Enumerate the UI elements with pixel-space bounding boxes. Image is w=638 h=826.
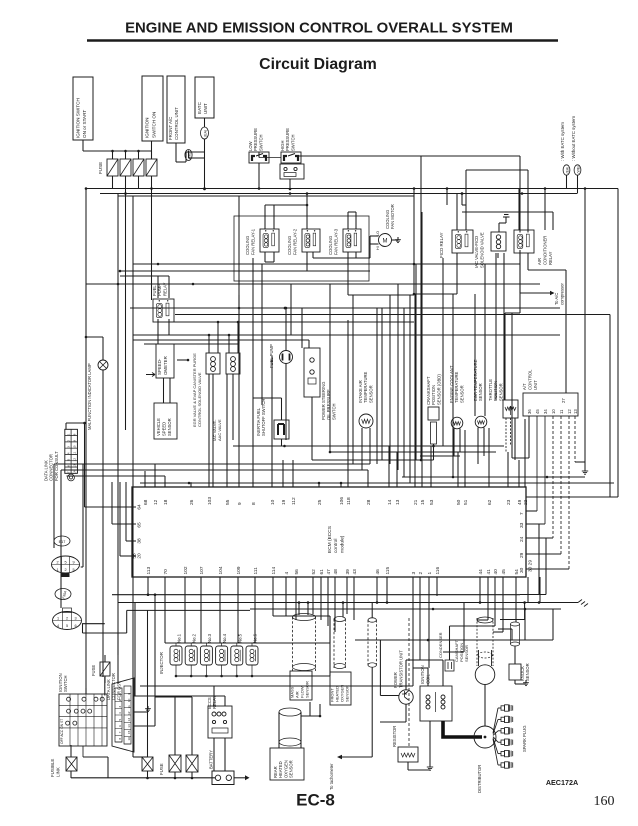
wires ECCS relay	[213, 738, 215, 771]
svg-text:OMETER: OMETER	[163, 356, 168, 375]
svg-text:FAN RELAY-2: FAN RELAY-2	[292, 228, 297, 255]
svg-text:58: 58	[132, 553, 138, 559]
svg-text:34: 34	[543, 409, 548, 414]
svg-text:55: 55	[225, 499, 231, 505]
svg-text:SPEED: SPEED	[162, 422, 167, 436]
svg-text:(EA): (EA)	[203, 130, 207, 137]
svg-text:ENGINE AND EMISSION CONTROL OV: ENGINE AND EMISSION CONTROL OVERALL SYST…	[125, 21, 513, 37]
svg-text:AAC VALVE: AAC VALVE	[217, 419, 222, 441]
fuse bottom 2	[186, 755, 198, 772]
svg-text:FICD RELAY: FICD RELAY	[439, 232, 444, 258]
wire bus above ECM 1	[233, 445, 504, 447]
svg-text:7: 7	[118, 731, 122, 733]
svg-text:SENSOR: SENSOR	[345, 685, 350, 702]
svg-text:15: 15	[420, 499, 426, 505]
svg-text:160: 160	[594, 794, 615, 809]
wire camshaft to ground	[498, 628, 512, 630]
svg-text:8: 8	[118, 738, 122, 740]
front A/C control unit box	[167, 76, 185, 143]
svg-text:3: 3	[66, 446, 70, 448]
connector F30A label	[55, 589, 71, 600]
svg-text:68: 68	[143, 499, 149, 505]
svg-text:MALFUNCTION INDICATOR LAMP: MALFUNCTION INDICATOR LAMP	[87, 363, 92, 430]
svg-text:62: 62	[487, 499, 493, 505]
connector WE on A/C line	[185, 150, 192, 161]
svg-text:SWITCH: SWITCH	[258, 134, 263, 151]
svg-text:FAN RELAY-1: FAN RELAY-1	[250, 228, 255, 255]
mass air flow sensor	[293, 614, 316, 621]
svg-text:24: 24	[519, 536, 525, 542]
svg-text:25: 25	[317, 499, 323, 505]
svg-text:26: 26	[189, 499, 195, 505]
svg-text:7: 7	[519, 512, 525, 515]
wires FICD AC relays	[456, 194, 458, 231]
ignition switch assembly	[59, 694, 107, 746]
svg-text:FRONT A/C: FRONT A/C	[168, 117, 173, 140]
svg-text:SENSOR: SENSOR	[498, 383, 503, 401]
svg-text:9: 9	[237, 502, 243, 505]
svg-text:103: 103	[207, 497, 213, 505]
fuse F3 top row	[133, 159, 144, 176]
svg-text:SENSOR: SENSOR	[305, 681, 310, 698]
data link connector for GST	[112, 678, 134, 752]
svg-text:13: 13	[573, 409, 578, 414]
svg-text:No.4: No.4	[222, 633, 227, 643]
wire bus above ECM 6	[140, 482, 614, 484]
svg-text:4: 4	[57, 624, 59, 628]
svg-text:4: 4	[284, 572, 290, 575]
svg-text:FOR GST: FOR GST	[116, 681, 121, 700]
svg-text:3: 3	[411, 572, 417, 575]
svg-text:CONDENSER: CONDENSER	[438, 632, 443, 658]
svg-text:23: 23	[506, 499, 512, 505]
svg-text:5: 5	[72, 568, 74, 572]
connector F30A pins	[53, 612, 82, 630]
svg-text:50: 50	[456, 499, 462, 505]
spark plugs	[498, 707, 501, 709]
wires solenoids	[212, 374, 214, 487]
svg-text:CONTROL: CONTROL	[527, 369, 532, 390]
svg-text:19: 19	[281, 499, 287, 505]
svg-text:SENSOR: SENSOR	[459, 385, 464, 403]
svg-text:CONTROL UNIT: CONTROL UNIT	[174, 107, 179, 140]
svg-text:EATC: EATC	[197, 101, 202, 114]
svg-text:14: 14	[387, 499, 393, 505]
wire injector ground bus	[176, 675, 330, 677]
svg-text:7: 7	[66, 471, 70, 473]
svg-text:6: 6	[74, 624, 76, 628]
svg-text:SENSOR: SENSOR	[289, 760, 294, 778]
ignition coil	[420, 686, 452, 721]
connector E17 label	[54, 536, 70, 546]
svg-text:IAC VALVE-FICD: IAC VALVE-FICD	[474, 236, 479, 268]
wires distributor region	[484, 684, 486, 726]
svg-text:4: 4	[66, 452, 70, 454]
svg-text:41: 41	[486, 569, 492, 575]
wire injector feed bus	[165, 642, 330, 644]
wires oxygen sensors	[301, 715, 320, 717]
wire main bus lower	[100, 193, 577, 195]
svg-text:FAN MOTOR: FAN MOTOR	[390, 204, 395, 229]
svg-text:2: 2	[64, 568, 66, 572]
svg-text:INJECTOR: INJECTOR	[159, 652, 164, 674]
svg-text:SENSOR: SENSOR	[368, 385, 373, 403]
svg-text:UNIT: UNIT	[203, 103, 208, 114]
svg-text:FUSE: FUSE	[98, 162, 103, 174]
wires to ECM top pins	[144, 471, 146, 487]
svg-text:36: 36	[527, 409, 532, 414]
svg-text:45: 45	[535, 409, 540, 414]
wires ECM right side steps	[526, 496, 618, 498]
svg-text:115: 115	[385, 567, 391, 575]
svg-text:FAN RELAY-3: FAN RELAY-3	[333, 228, 338, 255]
svg-text:COOLING: COOLING	[287, 236, 292, 255]
svg-text:: With EATC system: : With EATC system	[560, 122, 565, 161]
svg-text:ECM (ECCS: ECM (ECCS	[327, 526, 333, 553]
svg-text:48: 48	[333, 569, 339, 575]
svg-text:RELAY: RELAY	[212, 695, 217, 709]
svg-text:1: 1	[56, 568, 58, 572]
svg-text:SWITCH: SWITCH	[331, 403, 336, 420]
wires data link consult	[65, 423, 67, 429]
distributor	[474, 726, 496, 748]
wire fuse outputs to main bus	[112, 176, 114, 189]
ground above solenoid	[498, 223, 500, 232]
svg-text:EC-8: EC-8	[296, 791, 335, 810]
connector E17 pins	[52, 556, 80, 573]
wires cooling fan relays	[264, 205, 266, 229]
svg-text:13: 13	[127, 718, 131, 722]
svg-text:51: 51	[463, 499, 469, 505]
connector EA below EATC	[204, 118, 206, 127]
svg-text:SENSOR: SENSOR	[478, 383, 483, 401]
svg-text:38: 38	[137, 538, 143, 544]
svg-text:46: 46	[375, 569, 381, 575]
svg-text:40: 40	[493, 569, 499, 575]
svg-text:30: 30	[519, 567, 525, 573]
svg-text:14: 14	[127, 724, 131, 728]
svg-text:109: 109	[236, 566, 242, 574]
svg-text:IGNITION: IGNITION	[145, 118, 150, 138]
svg-text:CONDITIONER: CONDITIONER	[542, 236, 547, 265]
svg-text:BATTERY: BATTERY	[209, 750, 214, 769]
legend WE without EATC system	[574, 165, 581, 175]
svg-text:ON or START: ON or START	[82, 110, 87, 138]
svg-text:SENSOR: SENSOR	[167, 418, 172, 436]
svg-text:LO: LO	[376, 231, 380, 236]
vehicle speed sensor box	[154, 403, 177, 439]
wires fuel pump relay	[157, 276, 159, 298]
wire A/T pin 27 up	[565, 320, 567, 393]
svg-text:113: 113	[146, 567, 152, 575]
svg-text:43: 43	[352, 569, 358, 575]
svg-text:FUSE: FUSE	[91, 665, 96, 676]
wires power transistor	[405, 660, 407, 690]
ground right upper	[584, 468, 586, 471]
wire left verticals cluster	[117, 194, 119, 656]
svg-text:9: 9	[72, 560, 74, 564]
EATC unit box	[195, 77, 214, 118]
wires connectors to ECM	[82, 623, 105, 625]
svg-text:: Without EATC system: : Without EATC system	[571, 116, 576, 161]
svg-text:SOLENOID VALVE: SOLENOID VALVE	[480, 232, 485, 268]
svg-text:53: 53	[429, 499, 435, 505]
svg-text:106: 106	[339, 497, 345, 505]
svg-text:13: 13	[395, 499, 401, 505]
svg-text:114: 114	[271, 567, 277, 575]
svg-text:UNIT: UNIT	[533, 380, 538, 390]
wire bus branch y196	[118, 195, 414, 197]
wires A/T control unit drops	[528, 416, 530, 458]
svg-text:SENSOR: SENSOR	[525, 663, 530, 681]
svg-text:5: 5	[66, 459, 70, 461]
wire bus above ECM 4	[78, 463, 370, 465]
svg-text:112: 112	[291, 497, 297, 505]
svg-text:No.1: No.1	[177, 633, 182, 643]
tachometer feed cylinder	[368, 618, 376, 622]
svg-text:4: 4	[118, 712, 122, 714]
svg-text:SENSOR (OBD): SENSOR (OBD)	[436, 374, 441, 405]
svg-text:No.6: No.6	[253, 633, 258, 643]
svg-text:12: 12	[127, 711, 131, 715]
svg-text:3: 3	[118, 706, 122, 708]
wires lower right verticals	[524, 609, 526, 640]
fuse F2 top row	[120, 159, 131, 176]
svg-text:8: 8	[251, 502, 257, 505]
svg-text:21: 21	[413, 499, 419, 505]
to A/C compressor arrow	[520, 292, 550, 294]
svg-text:DISTRIBUTOR: DISTRIBUTOR	[477, 765, 482, 793]
svg-text:47: 47	[326, 569, 332, 575]
svg-text:2: 2	[66, 440, 70, 442]
svg-text:61: 61	[319, 569, 325, 575]
wire fuse feeds	[113, 150, 152, 152]
ignition switch ON box	[142, 76, 163, 141]
injector No.2	[185, 646, 197, 665]
wires throttle sensor	[505, 418, 507, 452]
svg-text:52: 52	[311, 569, 317, 575]
svg-text:104: 104	[218, 566, 224, 574]
svg-text:(WE): (WE)	[577, 166, 581, 174]
svg-text:FUSE: FUSE	[159, 763, 164, 775]
svg-text:2: 2	[56, 560, 58, 564]
wires ignition coil top	[427, 668, 429, 686]
wire bottom ground bus	[71, 777, 192, 779]
svg-text:33: 33	[519, 522, 525, 528]
svg-text:SPARK PLUG: SPARK PLUG	[522, 726, 527, 752]
svg-text:9: 9	[73, 440, 77, 442]
svg-text:No.3: No.3	[207, 633, 212, 643]
svg-text:POWER: POWER	[393, 672, 398, 688]
wires midband vertical forest	[381, 308, 383, 460]
svg-text:VEHICLE: VEHICLE	[156, 418, 161, 436]
svg-text:E17: E17	[59, 540, 66, 544]
svg-text:8: 8	[73, 433, 77, 435]
svg-text:49: 49	[517, 499, 523, 505]
svg-text:1: 1	[57, 616, 59, 620]
svg-text:29: 29	[519, 552, 525, 558]
fuse F4 top row	[146, 159, 157, 176]
svg-text:SWITCH ON: SWITCH ON	[151, 112, 156, 138]
svg-text:IGNITION SWITCH: IGNITION SWITCH	[76, 98, 81, 138]
svg-text:10: 10	[551, 409, 556, 414]
wire EA WE join to bus	[186, 151, 205, 153]
svg-text:M: M	[383, 239, 388, 245]
svg-text:12: 12	[567, 409, 572, 414]
svg-text:1: 1	[66, 433, 70, 435]
svg-text:AEC172A: AEC172A	[546, 778, 578, 787]
A/T control unit box	[523, 393, 578, 416]
injector No.5	[231, 646, 243, 665]
svg-text:COOLING: COOLING	[245, 236, 250, 255]
wire coil to distributor thick	[443, 721, 482, 737]
svg-text:12: 12	[153, 499, 159, 505]
svg-text:64: 64	[137, 504, 143, 510]
ECM ECCS control module box	[132, 487, 526, 577]
svg-text:27: 27	[561, 398, 566, 403]
svg-text:6: 6	[66, 465, 70, 467]
wire main bus upper	[86, 188, 618, 190]
svg-text:28: 28	[366, 499, 372, 505]
fuse bottom 1	[169, 755, 181, 772]
svg-text:SWITCH: SWITCH	[290, 134, 295, 151]
svg-text:RELAY: RELAY	[548, 251, 553, 265]
svg-text:RESISTOR: RESISTOR	[392, 726, 397, 747]
svg-text:116: 116	[435, 567, 441, 575]
wire ignition switch ON down	[151, 141, 153, 159]
injector No.4	[216, 646, 228, 665]
svg-text:111: 111	[253, 567, 259, 575]
wires midband horizontals extra	[133, 339, 309, 341]
svg-text:65: 65	[137, 522, 143, 528]
svg-text:2: 2	[418, 572, 424, 575]
svg-text:6: 6	[118, 725, 122, 727]
svg-text:3: 3	[74, 616, 76, 620]
svg-text:11: 11	[559, 409, 564, 414]
svg-text:FUSIBLE: FUSIBLE	[50, 759, 55, 777]
svg-text:No.5: No.5	[237, 633, 242, 643]
wire bus above ECM 3	[420, 455, 460, 457]
data link connector for CONSULT	[65, 429, 78, 473]
wires ECM bottom pin drops	[147, 577, 149, 596]
wire bus below ECM 3	[250, 608, 561, 610]
svg-text:COOLING: COOLING	[328, 236, 333, 255]
wire bus above ECM 5	[402, 476, 585, 478]
svg-text:To tachometer: To tachometer	[329, 763, 334, 790]
svg-text:compressor: compressor	[559, 283, 564, 305]
wires power steering switch	[311, 397, 313, 460]
svg-text:HI: HI	[376, 246, 380, 250]
svg-text:OFF ACC ON ST: OFF ACC ON ST	[60, 719, 64, 744]
svg-text:TRANSISTOR UNIT: TRANSISTOR UNIT	[398, 650, 403, 688]
svg-text:SWITCH: SWITCH	[63, 675, 68, 692]
wire front A/C unit down	[175, 143, 177, 162]
svg-text:44: 44	[478, 569, 484, 575]
fusible link right	[142, 757, 153, 771]
wire bus below ECM 2	[118, 602, 578, 604]
svg-text:control: control	[333, 539, 339, 553]
svg-text:To A/C: To A/C	[554, 293, 559, 305]
svg-text:10: 10	[270, 499, 276, 505]
svg-text:Circuit Diagram: Circuit Diagram	[259, 56, 377, 73]
wire legend stubs to bus	[566, 176, 568, 189]
svg-text:18: 18	[163, 499, 169, 505]
svg-text:5: 5	[64, 560, 66, 564]
svg-text:FOR CONSULT: FOR CONSULT	[54, 451, 59, 481]
ignition switch ON or START box	[73, 77, 93, 140]
wire bus below ECM 1	[112, 594, 520, 596]
svg-text:45: 45	[501, 569, 507, 575]
svg-text:2: 2	[66, 616, 68, 620]
svg-text:5: 5	[118, 718, 122, 720]
wire ignition switch ON/START to fuse bus	[82, 140, 84, 151]
svg-text:AIR: AIR	[537, 258, 542, 265]
svg-text:22: 22	[523, 499, 529, 505]
wire left main vertical	[85, 189, 87, 695]
title rule	[87, 39, 558, 42]
svg-text:module): module)	[339, 535, 345, 553]
injector No.3	[200, 646, 212, 665]
dual pressure switch box	[280, 164, 304, 179]
svg-text:15: 15	[127, 730, 131, 734]
svg-text:14: 14	[73, 470, 77, 474]
wire bus above ECM 2	[330, 451, 496, 453]
svg-text:No.2: No.2	[192, 633, 197, 643]
power steering oil pressure switch	[304, 348, 320, 397]
svg-text:107: 107	[199, 566, 205, 574]
svg-text:102: 102	[183, 566, 189, 574]
svg-text:5: 5	[66, 624, 68, 628]
svg-text:A/T: A/T	[522, 383, 527, 390]
svg-text:30 29: 30 29	[528, 560, 534, 572]
wires long verticals top area	[413, 189, 415, 295]
ignition coil ground	[429, 721, 431, 764]
front heated oxygen sensor	[334, 617, 345, 622]
svg-text:SENSOR: SENSOR	[464, 645, 469, 662]
svg-text:1: 1	[427, 572, 433, 575]
svg-text:39: 39	[345, 569, 351, 575]
injector No.6	[246, 646, 258, 665]
svg-text:LINK: LINK	[56, 767, 61, 777]
legend EA with EATC system	[563, 165, 570, 175]
cooling fan motor ground	[392, 239, 399, 241]
wire speedometer to vss	[163, 378, 165, 403]
injector No.1	[170, 646, 182, 665]
svg-text:SPEED-: SPEED-	[157, 358, 162, 375]
fuse F1 top row	[107, 159, 118, 176]
speedometer box	[156, 344, 174, 378]
svg-text:CONTROL SOLENOID VALVE: CONTROL SOLENOID VALVE	[197, 372, 202, 427]
wires DLC GST	[134, 711, 148, 713]
wires ignition switch	[85, 688, 87, 694]
wire relay box outline cooling	[234, 216, 369, 281]
svg-text:70: 70	[163, 569, 169, 575]
wires pressure switches	[259, 157, 281, 159]
svg-text:56: 56	[294, 569, 300, 575]
solenoid valve 1	[206, 353, 220, 374]
svg-text:118: 118	[346, 497, 352, 505]
svg-text:16: 16	[127, 737, 131, 741]
rear heated oxygen sensor	[279, 708, 301, 716]
svg-text:(EA): (EA)	[566, 167, 570, 174]
